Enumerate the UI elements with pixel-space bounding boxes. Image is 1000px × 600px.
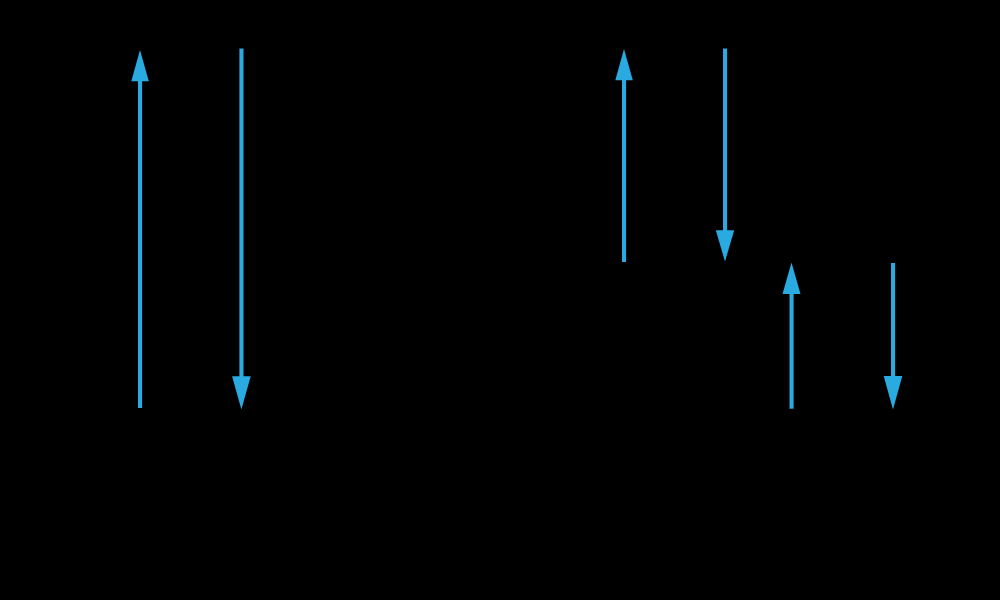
voltage arrow U1' (across R1, down) bbox=[716, 49, 734, 262]
wire R2 leads bbox=[841, 262, 844, 409]
wire left lower (source to bottom wire) bbox=[189, 269, 192, 409]
voltage arrow U (source voltage, up) bbox=[131, 50, 149, 408]
voltage arrow U2 (across R2, up) bbox=[783, 263, 801, 409]
resistor R1 bbox=[655, 100, 695, 210]
wire R1 leads bbox=[674, 49, 677, 262]
voltage arrow U2' (across R2, down) bbox=[884, 263, 903, 410]
voltage source U bbox=[150, 189, 230, 269]
wire bottom (node D back to source) bbox=[190, 408, 842, 411]
voltage arrow U1 (across R1, up) bbox=[615, 49, 633, 262]
wire top (node A to node B) bbox=[190, 48, 675, 51]
resistor R2 bbox=[822, 300, 862, 372]
wire left upper (source to node A) bbox=[189, 49, 192, 189]
voltage arrow U total (down, right of source) bbox=[232, 49, 251, 410]
wire middle (node B to node C) bbox=[675, 261, 842, 264]
